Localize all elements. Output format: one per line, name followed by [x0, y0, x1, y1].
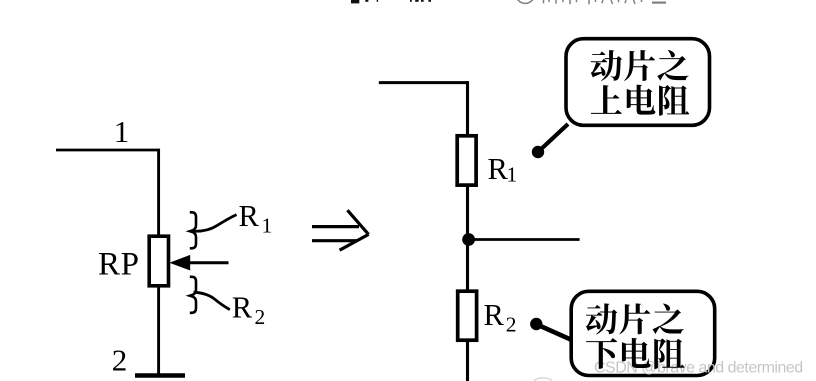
wire: R2 to bottom edge — [466, 339, 469, 381]
wire: left vertical down to potentiometer — [157, 149, 160, 238]
leader curve to label R2 (left) — [194, 292, 230, 310]
label R2 (left) — [232, 291, 265, 329]
caption fragment (cut-off black text, top) — [351, 0, 431, 3]
watermark arc fragment (bottom) — [534, 378, 552, 381]
label R1 (right) — [488, 152, 518, 187]
svg-text:R: R — [484, 298, 505, 332]
brace for R2 (lower half) — [190, 277, 196, 313]
wire: right top horizontal — [379, 81, 468, 84]
wire: node to R2 — [466, 239, 469, 292]
callout balloon: lower resistance note — [530, 291, 715, 375]
svg-text:1: 1 — [114, 114, 130, 149]
svg-text:2: 2 — [506, 313, 517, 337]
label R1 (left) — [239, 199, 273, 237]
svg-text:RP: RP — [98, 246, 140, 282]
callout balloon: upper resistance note — [532, 39, 710, 159]
wiper arrow of RP — [169, 255, 228, 271]
callout text: 动片之 上电阻 — [591, 50, 690, 116]
wire: node to the right — [469, 238, 580, 241]
wire: left top horizontal from terminal 1 — [56, 149, 159, 152]
potentiometer RP body — [149, 236, 168, 286]
leader curve to label R1 (left) — [194, 215, 237, 232]
wire: right vertical top to R1 — [466, 81, 469, 137]
callout text: 动片之 下电阻 — [586, 303, 685, 369]
svg-text:1: 1 — [262, 213, 273, 237]
svg-text:2: 2 — [255, 305, 266, 329]
svg-text:R: R — [488, 152, 509, 186]
label R2 (right) — [484, 298, 517, 337]
svg-text:R: R — [232, 291, 253, 325]
resistor R1 body — [457, 136, 476, 185]
wire: R1 to node — [466, 184, 469, 240]
svg-text:1: 1 — [507, 163, 518, 187]
svg-text:R: R — [239, 199, 260, 233]
wire: left vertical potentiometer to bottom — [157, 284, 160, 375]
caption fragment (cut-off gray text, top right) — [516, 0, 666, 4]
brace for R1 (upper half) — [190, 212, 196, 248]
equivalence arrow (double arrow) — [312, 210, 369, 250]
svg-text:CSDN @brave and determined: CSDN @brave and determined — [594, 360, 803, 377]
svg-text:2: 2 — [112, 342, 128, 377]
terminal bar at node 2 (bottom) — [135, 373, 185, 378]
node (wiper tap junction) — [462, 233, 475, 246]
resistor R2 body — [458, 291, 477, 340]
